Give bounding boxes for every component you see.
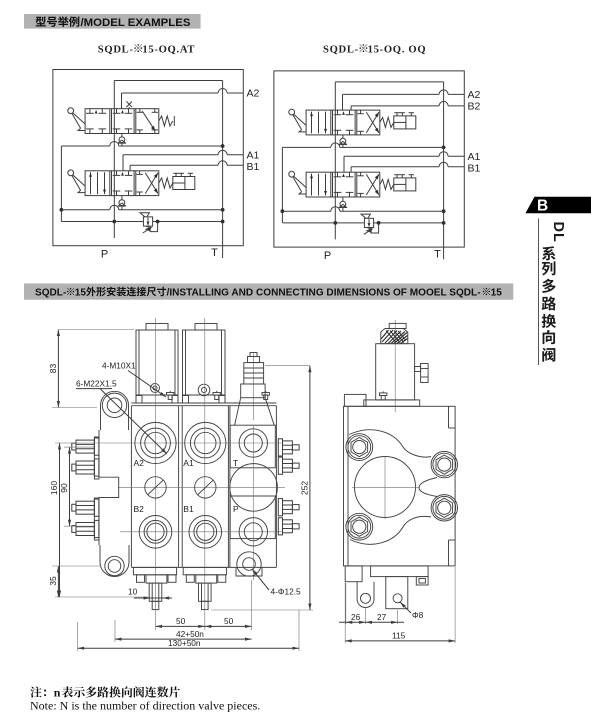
svg-text:B2: B2 bbox=[468, 101, 481, 113]
wire A1 bbox=[123, 150, 243, 171]
directional valve 1 bbox=[306, 110, 380, 135]
svg-text:B1: B1 bbox=[247, 161, 260, 173]
check valve 2 bbox=[339, 197, 347, 211]
svg-text:15-OQ. OQ: 15-OQ. OQ bbox=[368, 44, 427, 55]
lever of valve 1 bbox=[68, 108, 85, 131]
svg-text:6-M22X1.5: 6-M22X1.5 bbox=[76, 379, 117, 389]
svg-text:SQDL-: SQDL- bbox=[323, 44, 359, 55]
side view: bottom plate bbox=[371, 566, 429, 577]
valve body sections bbox=[131, 403, 276, 567]
svg-text:B1: B1 bbox=[468, 162, 481, 174]
bottom cap section1 bbox=[133, 567, 176, 583]
wire left bypass loop bbox=[60, 146, 64, 222]
svg-text:130+50n: 130+50n bbox=[168, 638, 201, 648]
dim 42+50n bbox=[115, 620, 252, 642]
spring of valve 2 bbox=[159, 178, 173, 188]
wire relief feedback bbox=[150, 222, 157, 232]
circuit frame bbox=[274, 71, 464, 247]
pilot box of valve 2 bbox=[173, 173, 195, 189]
svg-text:90: 90 bbox=[59, 483, 69, 493]
port circle T bbox=[239, 429, 267, 457]
port circle A1 bbox=[185, 422, 226, 463]
label phi8 bbox=[400, 602, 424, 620]
svg-text:T: T bbox=[211, 247, 218, 259]
section 3 boss plate bbox=[230, 425, 275, 538]
svg-text:27: 27 bbox=[377, 612, 387, 622]
dim 130+50n bbox=[78, 610, 299, 651]
svg-text:SQDL-: SQDL- bbox=[35, 287, 66, 298]
svg-text:A1: A1 bbox=[468, 151, 481, 163]
svg-text:35: 35 bbox=[48, 576, 58, 586]
dim 10 bbox=[128, 587, 172, 600]
wire B2 bbox=[351, 101, 464, 110]
side rule bbox=[538, 219, 540, 366]
wire check1 to tank bbox=[282, 143, 443, 148]
side view: casting web bbox=[346, 430, 458, 545]
svg-text:Note: N is the number of direc: Note: N is the number of direction valve… bbox=[30, 699, 260, 713]
svg-text:252: 252 bbox=[300, 481, 310, 495]
tower bolt circles bbox=[151, 384, 210, 396]
dim 35 bbox=[48, 566, 100, 597]
svg-text:/MODEL EXAMPLES: /MODEL EXAMPLES bbox=[81, 17, 191, 29]
directional valve 2 bbox=[85, 171, 159, 196]
bottom cap section2 bbox=[183, 567, 226, 583]
tower cap screws bbox=[167, 391, 270, 400]
wire B1 bbox=[351, 162, 464, 172]
wire P riser bbox=[112, 81, 116, 239]
svg-text:B1: B1 bbox=[183, 504, 194, 514]
side view: right bracket bbox=[416, 577, 428, 585]
svg-text:T: T bbox=[233, 458, 238, 468]
wire A2 bbox=[122, 89, 244, 109]
dim 252 bbox=[212, 366, 314, 610]
pilot box of valve 2 bbox=[394, 175, 416, 191]
header bar: installing and connecting dimensions bbox=[20, 278, 520, 306]
port circle B1 bbox=[189, 516, 222, 549]
front view: solenoid tower 1 bbox=[136, 324, 178, 404]
vertical series title DL系列多路换向阀 bbox=[530, 210, 591, 375]
front view: solenoid tower 2 bbox=[183, 324, 226, 404]
relief valve bbox=[361, 214, 374, 234]
wire left bypass loop bbox=[281, 147, 285, 223]
wire T riser bbox=[442, 82, 446, 260]
svg-text:A2: A2 bbox=[247, 88, 260, 100]
svg-text:15-OQ.AT: 15-OQ.AT bbox=[142, 44, 195, 55]
port circle A2 bbox=[135, 422, 176, 463]
section tab B bbox=[515, 190, 591, 370]
dim 26 27 bbox=[339, 583, 404, 624]
lever of valve 2 bbox=[68, 170, 85, 193]
svg-text:15: 15 bbox=[75, 287, 87, 298]
spring of valve 2 bbox=[380, 179, 394, 189]
wire A2 bbox=[343, 90, 465, 110]
lever of valve 1 bbox=[289, 109, 306, 132]
side view: nipple bbox=[415, 364, 429, 383]
svg-text:15: 15 bbox=[491, 287, 503, 298]
wire A1 bbox=[344, 152, 464, 173]
spring of valve 1 bbox=[380, 117, 394, 127]
wire relief feedback bbox=[371, 223, 378, 233]
svg-text:4-M10X1: 4-M10X1 bbox=[102, 361, 136, 371]
wire P riser bbox=[333, 82, 337, 240]
port labels bbox=[134, 458, 240, 514]
bottom mounting hole (front) bbox=[237, 552, 261, 576]
side view: center lug bbox=[386, 577, 408, 609]
wire relief line bbox=[282, 221, 443, 225]
check valve 1 bbox=[339, 135, 347, 148]
svg-text:83: 83 bbox=[48, 364, 58, 374]
section3 foot bbox=[236, 567, 262, 576]
side view: tower bbox=[376, 320, 415, 412]
circuit frame bbox=[53, 70, 243, 246]
wire lower tank line bbox=[61, 205, 222, 210]
centerlines bbox=[118, 318, 285, 612]
side view: body bbox=[344, 394, 456, 566]
directional valve 1 bbox=[85, 109, 159, 134]
spool bores bbox=[145, 464, 278, 512]
check valve 2 bbox=[118, 196, 126, 210]
label 4-M10X1 bbox=[102, 361, 166, 398]
note line chinese bbox=[24, 680, 444, 718]
dim 115 bbox=[345, 567, 455, 643]
stud section2 bbox=[199, 583, 212, 610]
svg-text:P: P bbox=[233, 504, 239, 514]
port circle B2 bbox=[139, 516, 172, 549]
right bolts bbox=[278, 439, 299, 535]
directional valve 2 bbox=[306, 172, 380, 197]
svg-text:160: 160 bbox=[49, 481, 59, 495]
title: SQDL-*15-OQ.AT bbox=[80, 38, 540, 58]
port circle P bbox=[239, 518, 267, 546]
dim 90 bbox=[59, 447, 94, 526]
left end plate with ears bbox=[99, 391, 129, 576]
stud section1 bbox=[149, 583, 162, 610]
label 6-M22X1.5 bbox=[76, 379, 167, 454]
label 4-phi12.5 bbox=[252, 569, 301, 596]
svg-text:A1: A1 bbox=[247, 149, 260, 161]
left bolts bbox=[72, 437, 99, 540]
pilot box of valve 1 bbox=[394, 113, 416, 129]
dim 50 50 bbox=[156, 580, 252, 630]
svg-text:A2: A2 bbox=[134, 458, 145, 468]
side view: left foot and lug bbox=[345, 566, 374, 608]
svg-text:DL: DL bbox=[550, 222, 566, 243]
svg-text:n: n bbox=[54, 686, 61, 700]
dim 83 bbox=[48, 330, 134, 408]
svg-text:50: 50 bbox=[176, 616, 186, 626]
svg-text:Φ8: Φ8 bbox=[412, 610, 424, 620]
svg-text:B2: B2 bbox=[134, 504, 145, 514]
relief valve tower (front) bbox=[235, 353, 275, 426]
svg-text:4-Φ12.5: 4-Φ12.5 bbox=[271, 586, 302, 596]
wire top loop P-to-T bbox=[335, 81, 443, 83]
side view: hex bolts bbox=[348, 436, 456, 538]
side view: flange screw bbox=[380, 391, 387, 400]
spring of valve 1 bbox=[159, 116, 175, 126]
svg-text:50: 50 bbox=[224, 616, 234, 626]
check valve 1 bbox=[118, 134, 126, 147]
svg-text:SQDL-: SQDL- bbox=[98, 44, 134, 55]
wire check1 to tank bbox=[61, 142, 222, 146]
svg-text:10: 10 bbox=[128, 587, 138, 597]
side view: flange bbox=[364, 400, 420, 406]
svg-text:26: 26 bbox=[351, 612, 361, 622]
svg-text:A2: A2 bbox=[468, 89, 481, 101]
wire lower tank line bbox=[282, 207, 443, 211]
relief tower centerline bbox=[252, 352, 254, 420]
relief valve bbox=[140, 213, 153, 233]
svg-text:P: P bbox=[324, 250, 331, 262]
side view: crosshair bbox=[352, 457, 420, 520]
header bar: 型号举例/MODEL EXAMPLES bbox=[20, 8, 280, 34]
svg-text:P: P bbox=[101, 249, 108, 261]
svg-text:/INSTALLING AND CONNECTING DIM: /INSTALLING AND CONNECTING DIMENSIONS OF… bbox=[167, 287, 481, 298]
wire B1 bbox=[130, 161, 243, 171]
svg-text:A1: A1 bbox=[183, 458, 194, 468]
svg-text:T: T bbox=[434, 248, 441, 260]
svg-text:115: 115 bbox=[392, 631, 406, 641]
wire T riser bbox=[221, 81, 225, 259]
lever of valve 2 bbox=[289, 171, 306, 194]
blocked port marker X bbox=[126, 102, 132, 109]
dim 160 bbox=[49, 443, 150, 597]
wire top loop P-to-T bbox=[114, 80, 222, 82]
wire relief line bbox=[61, 220, 222, 224]
